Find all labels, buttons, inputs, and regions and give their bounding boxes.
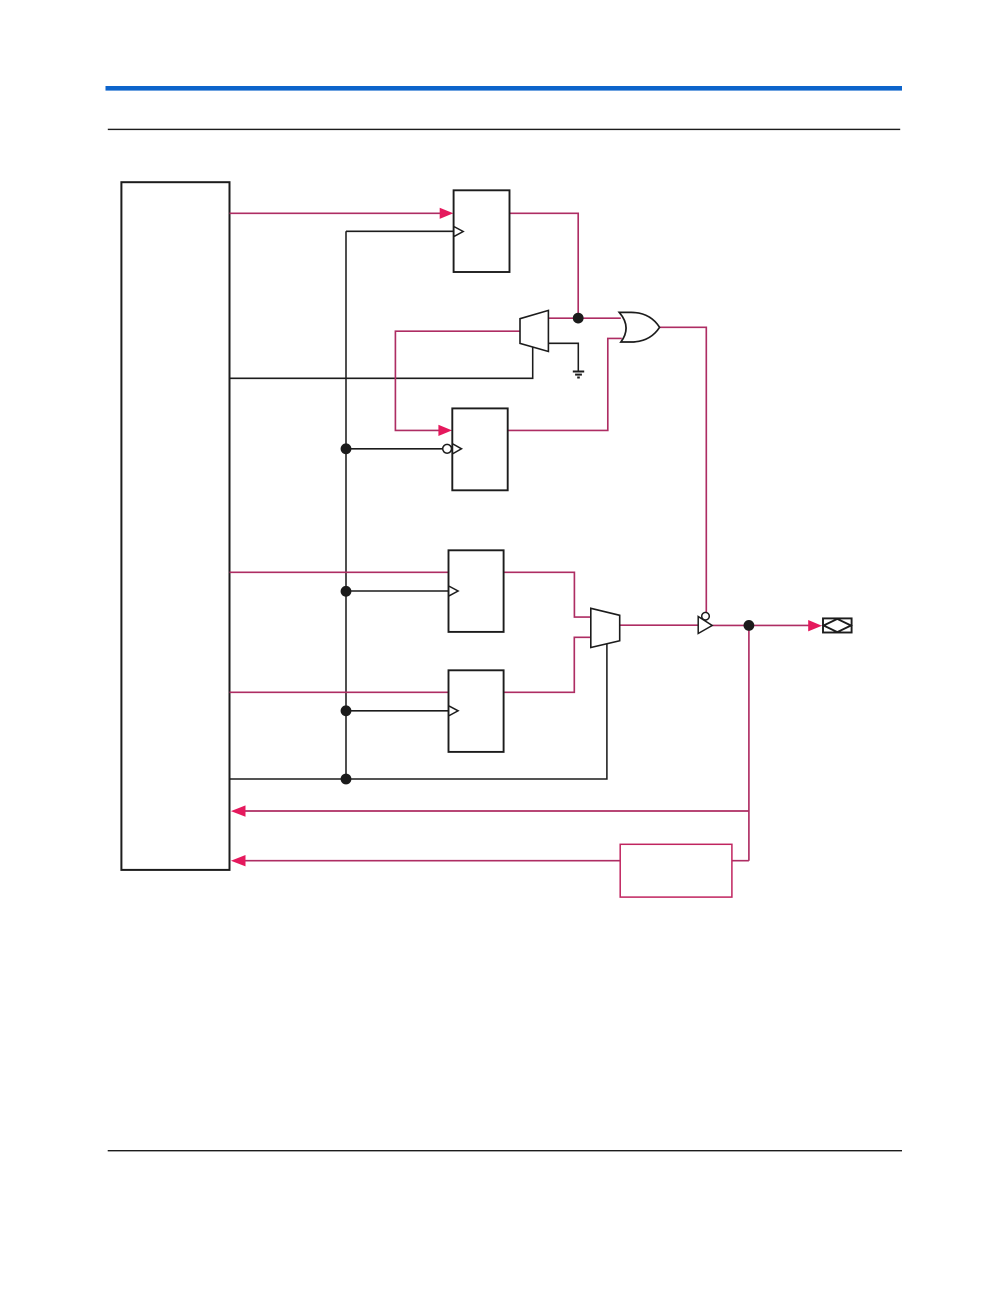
wire: I/O block to FF3 D	[230, 571, 449, 573]
I/O pad symbol	[823, 618, 852, 632]
delay box output to I/O block	[245, 860, 621, 862]
junction dot FF4 clock	[341, 705, 352, 716]
arrowhead into pad	[808, 620, 822, 631]
wire: FF2 Q to OR gate input 2	[508, 338, 622, 430]
flip-flop FF2	[452, 408, 507, 490]
junction dot clock bottom	[341, 774, 352, 785]
wire: mux1 output to FF2 D	[395, 331, 520, 430]
flip-flop FF4	[449, 670, 504, 752]
wire: clock stub to FF1	[346, 230, 454, 232]
wire: tristate output to pad	[712, 624, 809, 626]
FF2 clock bubble	[443, 444, 452, 453]
wire: OR output to tristate enable	[660, 327, 707, 612]
I/O block rectangle (left)	[121, 182, 229, 870]
wire: mux2 output to tristate input	[620, 624, 699, 626]
wire: feedback 1 to I/O block	[245, 810, 749, 812]
junction dot FF3 clock	[341, 586, 352, 597]
flip-flop FF1	[454, 190, 510, 272]
wire: FF4 Q to mux2 input 2	[504, 637, 591, 692]
wire: mux1 input 2 to ground	[548, 343, 578, 371]
wire: mux1 select from I/O block	[230, 347, 533, 378]
flip-flop FF3	[449, 550, 504, 632]
wire: mux2 select from I/O block (bottom)	[230, 644, 607, 779]
arrowhead feedback 1	[231, 805, 246, 816]
wire: clock vertical bus	[345, 231, 347, 779]
wire: clock stub to FF2 bubble	[346, 448, 443, 450]
FF3 clock triangle	[449, 586, 459, 596]
header blue rule	[106, 86, 903, 91]
tristate output buffer	[698, 617, 712, 634]
tristate enable bubble	[702, 612, 710, 620]
wire: clock stub to FF3	[346, 590, 449, 592]
wire: pad feedback vertical	[732, 625, 749, 860]
wire: net from I/O block to FF1 D (crimson)	[230, 212, 441, 214]
footer thin rule	[108, 1150, 902, 1151]
mux2 (output data mux)	[591, 608, 620, 647]
wire: FF1 Q to OR gate / mux1 input1	[510, 213, 621, 318]
header thin rule	[108, 129, 900, 130]
ground	[573, 372, 584, 378]
FF4 clock triangle	[449, 706, 459, 716]
FF1 clock triangle	[454, 226, 464, 236]
junction dot FF2 clock	[341, 443, 352, 454]
junction dot FF1 Q / OR input	[573, 313, 584, 324]
wire: I/O block to FF4 D	[230, 691, 449, 693]
arrowhead into FF2 D	[438, 425, 452, 436]
mux1 (output enable mux)	[520, 310, 548, 351]
arrowhead into FF1 D	[440, 208, 454, 219]
wire: clock stub to FF4	[346, 710, 449, 712]
junction dot pad output	[744, 620, 755, 631]
input delay box (crimson)	[620, 844, 732, 897]
OR gate	[619, 312, 659, 342]
FF2 clock triangle	[452, 444, 461, 454]
arrowhead feedback 2	[231, 855, 246, 866]
wire: FF3 Q to mux2 input 1	[504, 572, 591, 617]
